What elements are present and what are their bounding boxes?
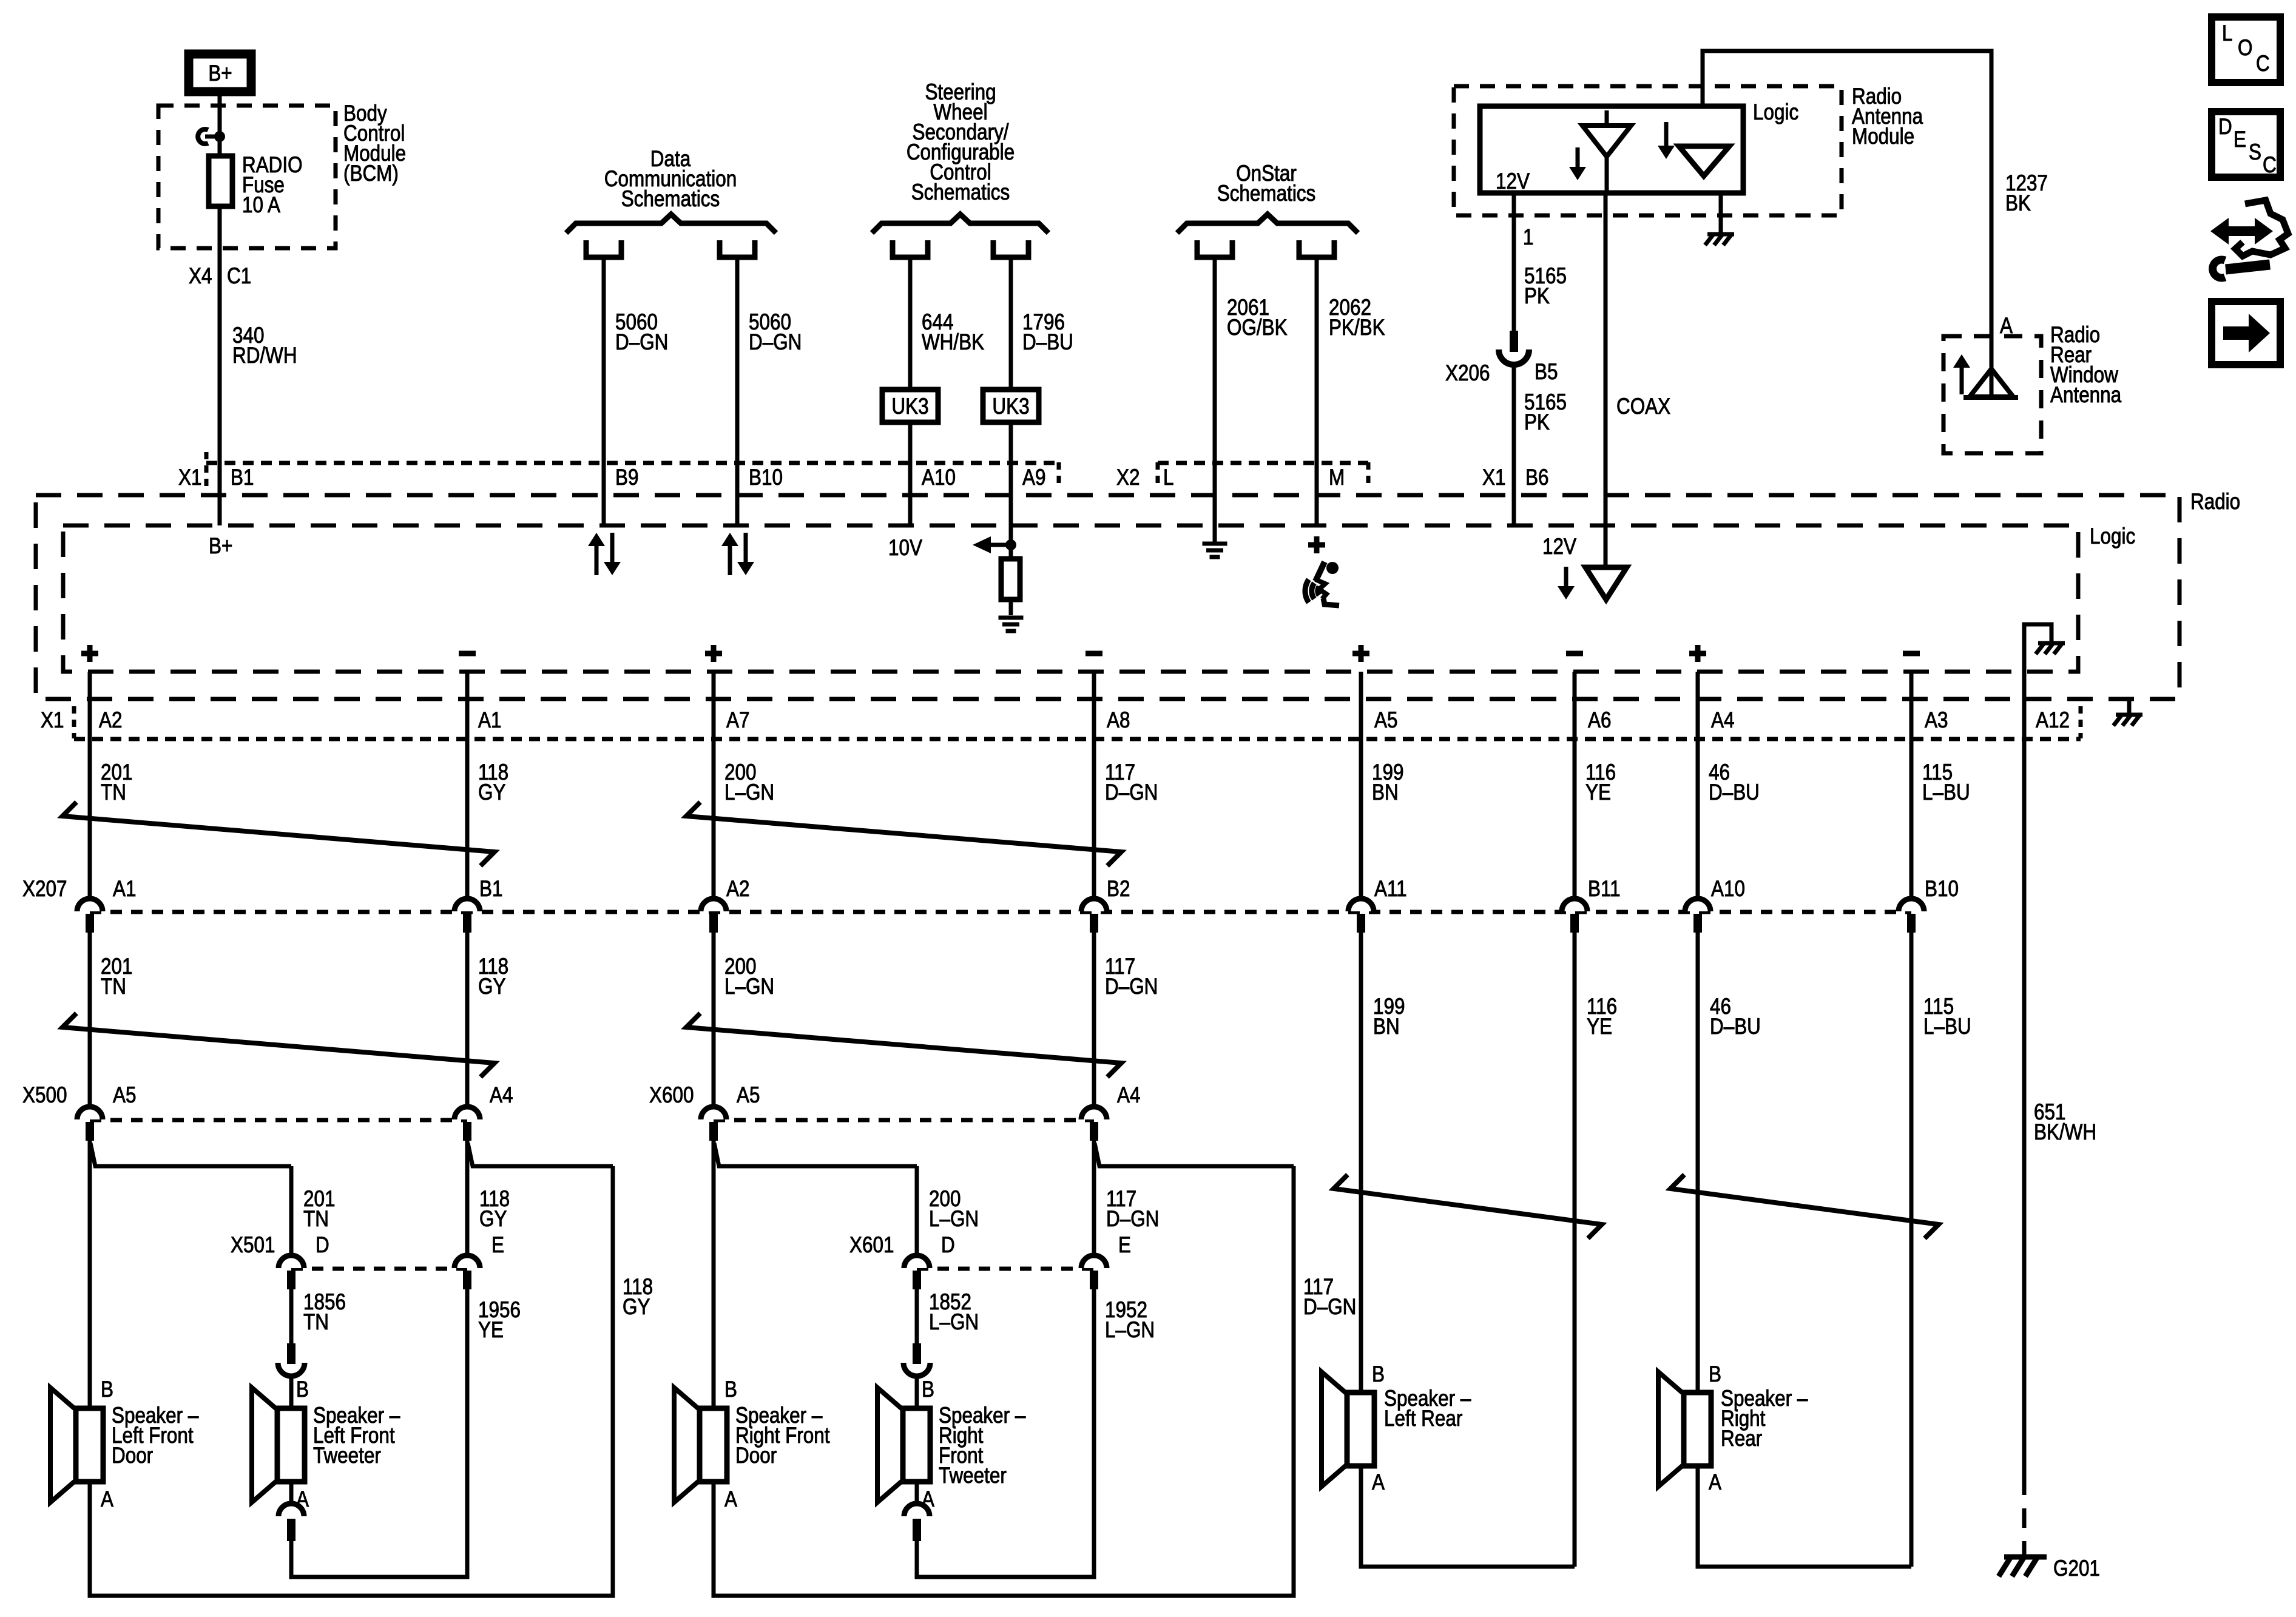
B+ power symbol	[189, 54, 251, 92]
speaker Right Front Tweeter	[877, 1388, 904, 1502]
svg-text:E: E	[491, 1233, 504, 1258]
wire 199 BN X207 to rear speaker	[1359, 933, 1363, 1393]
svg-text:12V: 12V	[1496, 169, 1530, 194]
Body Control Module dashed box	[158, 106, 336, 248]
option box UK3 (A10)	[882, 390, 938, 422]
wire 118 GY X207 to X500	[465, 933, 470, 1106]
svg-text:B6: B6	[1525, 465, 1548, 490]
connector to data schematic B10	[720, 240, 755, 257]
svg-text:118GY: 118GY	[478, 760, 508, 805]
connector to data schematic B9	[586, 240, 621, 257]
wire 115 L–BU radio to X207	[1909, 672, 1914, 897]
OnStar L ground stub	[1213, 525, 1217, 542]
coax wire antenna to radio	[1604, 193, 1608, 570]
radio antenna input triangle	[1585, 567, 1627, 599]
svg-text:A1: A1	[478, 708, 501, 733]
svg-text:D: D	[316, 1233, 329, 1258]
svg-text:X600: X600	[649, 1083, 694, 1108]
wire 5060 B9	[602, 257, 606, 525]
brace steering wheel controls	[872, 214, 1048, 233]
connector row X1 top dotted line	[206, 461, 1059, 465]
svg-text:B: B	[1709, 1362, 1721, 1387]
legend right arrow box	[2212, 302, 2280, 365]
ground antenna triangle in module	[1679, 146, 1729, 176]
svg-text:12V: 12V	[1542, 535, 1576, 559]
svg-text:118GY: 118GY	[479, 1187, 510, 1232]
twisted pair crossover A1/B1 lower	[62, 1013, 495, 1077]
branch wire from x=770 to x=1010	[468, 1143, 613, 1166]
svg-text:X206: X206	[1445, 361, 1490, 386]
svg-text:X1: X1	[1482, 465, 1505, 490]
twisted pair crossover A2/A1 upper	[62, 802, 495, 866]
junction dot at fuse	[214, 131, 225, 142]
svg-text:1952L–GN: 1952L–GN	[1105, 1298, 1155, 1343]
legend LOC box	[2212, 17, 2280, 83]
svg-text:A9: A9	[1022, 465, 1045, 490]
speaker Right Front Door	[674, 1388, 701, 1502]
svg-text:A4: A4	[1117, 1083, 1140, 1108]
svg-text:X1: X1	[41, 708, 64, 733]
svg-text:B: B	[724, 1377, 737, 1402]
svg-text:A2: A2	[726, 877, 749, 902]
svg-text:A: A	[1372, 1470, 1385, 1495]
svg-text:D: D	[2218, 115, 2232, 140]
svg-text:E: E	[1118, 1233, 1131, 1258]
twisted pair crossover A10/B10	[1670, 1175, 1939, 1238]
wire 1796 D-BU	[1009, 257, 1013, 559]
wire 200 L-GN X600-A5 to RF door speaker	[712, 1141, 716, 1408]
wire 116 YE X207 to rear speaker	[1573, 933, 1577, 1567]
brace data communication	[566, 214, 776, 233]
polarity plus at x=2798	[1689, 651, 1706, 657]
polarity plus at x=1176	[705, 651, 722, 657]
polarity plus at x=2243	[1352, 651, 1369, 657]
svg-text:UK3: UK3	[992, 394, 1029, 419]
connector to OnStar schematic L	[1197, 240, 1232, 257]
svg-text:1: 1	[1523, 225, 1533, 250]
branch wire from x=1176 to x=1511	[714, 1143, 917, 1166]
connector X206 pin bar	[1510, 331, 1518, 352]
svg-text:B9: B9	[615, 465, 638, 490]
fuse F RADIO 10A body	[209, 156, 232, 206]
wire 201 TN X500-A5 to LF door speaker	[88, 1141, 92, 1408]
svg-text:A10: A10	[1711, 877, 1745, 902]
connector X500/X600 A4	[454, 1107, 480, 1119]
svg-text:118GY: 118GY	[478, 954, 508, 999]
rear window antenna symbol	[1990, 369, 1994, 396]
svg-text:B: B	[296, 1377, 309, 1402]
svg-text:A: A	[1709, 1470, 1721, 1495]
svg-text:X2: X2	[1116, 465, 1140, 490]
Radio outer dashed box	[36, 495, 2180, 699]
svg-text:O: O	[2238, 36, 2252, 61]
wire 651 BK/WH to G201	[2022, 739, 2027, 1476]
A12 internal ground wire	[2024, 624, 2051, 739]
legend double arrow with hand icon	[2210, 218, 2273, 245]
wire 117 D-GN X600-A4 to X601-E	[1092, 1141, 1096, 1255]
svg-text:B10: B10	[1925, 877, 1959, 902]
svg-text:Logic: Logic	[2090, 524, 2135, 549]
svg-text:A8: A8	[1107, 708, 1130, 733]
svg-text:A: A	[296, 1487, 309, 1512]
connector X501/X601 D	[279, 1255, 304, 1268]
tweeter A inline connector	[279, 1504, 304, 1516]
divider X1 bottom-left	[72, 706, 76, 738]
svg-text:A5: A5	[113, 1083, 136, 1108]
svg-text:A2: A2	[99, 708, 122, 733]
connector X501/X601 E	[1081, 1255, 1107, 1268]
wire left rear speaker loop	[1361, 1466, 1575, 1567]
legend DESC box	[2212, 112, 2280, 177]
wire right rear speaker loop	[1698, 1466, 1911, 1567]
wire 199 BN radio to X207	[1359, 672, 1363, 897]
connector row X501 dashed line	[291, 1267, 467, 1271]
svg-text:L: L	[2222, 21, 2232, 46]
connector X500/X600 A4	[1081, 1107, 1107, 1119]
antenna module inner logic box	[1480, 106, 1743, 193]
legend wrench icon	[2226, 265, 2270, 269]
wire B+ to fuse	[218, 96, 222, 159]
svg-text:S: S	[2249, 140, 2261, 165]
svg-text:A: A	[922, 1487, 934, 1512]
wire 117 D–GN radio to X207	[1092, 672, 1096, 897]
wire 12V antenna feed 5165 PK upper	[1512, 193, 1516, 333]
connector X207 A11	[1348, 899, 1374, 911]
brace OnStar	[1177, 214, 1358, 233]
svg-text:10V: 10V	[888, 536, 922, 561]
polarity minus at x=3150	[1903, 651, 1920, 657]
OnStar L ground	[1203, 542, 1227, 546]
svg-text:Radio: Radio	[2190, 490, 2240, 515]
wire 201 TN branch down to X501-D	[289, 1166, 294, 1255]
wire 200 L-GN branch down to X601-D	[915, 1166, 919, 1255]
svg-text:G201: G201	[2053, 1556, 2100, 1581]
svg-text:A4: A4	[490, 1083, 513, 1108]
up/down arrows B9	[595, 544, 599, 575]
svg-text:1852L–GN: 1852L–GN	[929, 1290, 979, 1335]
wire 5165 PK lower	[1512, 364, 1516, 525]
svg-text:A4: A4	[1711, 708, 1734, 733]
svg-text:C: C	[2263, 153, 2277, 178]
polarity plus at x=148	[81, 651, 98, 657]
antenna mast symbol in module	[1605, 110, 1609, 193]
svg-text:Speaker –Left Rear: Speaker –Left Rear	[1384, 1386, 1471, 1431]
svg-text:A3: A3	[1925, 708, 1948, 733]
connector X207 A10	[1685, 899, 1710, 911]
radio case chassis ground	[2116, 713, 2142, 717]
svg-text:C1: C1	[227, 264, 251, 289]
speaker Left Rear	[1322, 1372, 1348, 1487]
divider X2 left	[1156, 462, 1160, 489]
wire 644 WH/BK	[908, 257, 913, 525]
divider right of M	[1366, 462, 1371, 489]
svg-text:A1: A1	[113, 877, 136, 902]
plus sign OnStar M	[1308, 542, 1325, 548]
twisted pair crossover A11/B11	[1334, 1175, 1602, 1238]
svg-text:A7: A7	[726, 708, 749, 733]
wire 1952 L-GN X601-E loop to RF tweeter A	[917, 1289, 1094, 1577]
wire 46 D–BU X207 to rear speaker	[1696, 933, 1700, 1393]
svg-text:A: A	[101, 1487, 113, 1512]
connector X207 B2	[1081, 899, 1107, 911]
wire 118 GY loop down	[90, 1166, 613, 1596]
wire 118 GY radio to X207	[465, 672, 470, 897]
svg-text:118GY: 118GY	[623, 1275, 653, 1320]
svg-text:A12: A12	[2036, 708, 2070, 733]
connector to steering schematic A9	[993, 240, 1028, 257]
svg-text:B11: B11	[1588, 877, 1621, 902]
svg-text:B+: B+	[208, 61, 232, 86]
svg-text:M: M	[1329, 465, 1345, 490]
branch wire from x=148 to x=480	[90, 1143, 291, 1166]
svg-text:X501: X501	[231, 1233, 275, 1258]
svg-text:E: E	[2234, 127, 2246, 152]
twisted pair crossover A2/B2 lower	[686, 1013, 1121, 1077]
A9 junction dot	[1005, 539, 1016, 550]
svg-text:COAX: COAX	[1616, 394, 1670, 419]
connector X207 A1	[77, 899, 103, 911]
polarity minus at x=2595	[1566, 651, 1583, 657]
svg-text:X4: X4	[189, 264, 212, 289]
radio case ground stub	[2127, 699, 2132, 714]
svg-text:A11: A11	[1374, 877, 1407, 902]
speaker Left Front Door	[50, 1388, 77, 1502]
wire 117 D-GN loop down	[714, 1166, 1294, 1596]
connector row X1 bottom dotted line	[74, 737, 2081, 741]
svg-text:L: L	[1163, 465, 1173, 490]
ground G201	[2004, 1555, 2047, 1560]
wire 1856 TN X501-D to tweeter	[289, 1289, 294, 1346]
wire 5060 B10	[735, 257, 740, 525]
svg-text:UK3: UK3	[891, 394, 928, 419]
svg-text:B1: B1	[231, 465, 254, 490]
svg-text:X500: X500	[22, 1083, 67, 1108]
fuse clip curl	[198, 129, 208, 144]
down arrow by antenna mast	[1576, 147, 1580, 169]
svg-text:X207: X207	[22, 877, 67, 902]
A9 resistor ground	[999, 616, 1024, 620]
svg-text:B2: B2	[1107, 877, 1130, 902]
connector row X207 dashed line	[90, 910, 1911, 914]
wire 201 TN radio to X207	[88, 672, 92, 897]
polarity minus at x=1803	[1086, 651, 1102, 657]
divider A12 right	[2079, 706, 2083, 738]
connector X207 B11	[1562, 899, 1587, 911]
connector X500/X600 A5	[77, 1107, 103, 1119]
wire 115 L–BU X207 to rear speaker	[1909, 933, 1914, 1567]
connector X207 B1	[454, 899, 480, 911]
Radio Logic inner dashed box	[63, 525, 2078, 672]
down arrow by ground antenna	[1664, 122, 1669, 148]
polarity minus at x=770	[459, 651, 476, 657]
svg-text:A5: A5	[1374, 708, 1397, 733]
connector X500/X600 A5	[701, 1107, 726, 1119]
svg-text:B: B	[101, 1377, 113, 1402]
wire antenna module to rear window antenna 1237 BK	[1703, 51, 1991, 369]
Radio Rear Window Antenna dashed box	[1943, 336, 2041, 453]
antenna module case ground stub	[1719, 193, 1723, 233]
speaker Left Front Tweeter	[252, 1388, 279, 1502]
divider X1 left	[204, 452, 209, 489]
wire 2062 PK/BK	[1315, 257, 1319, 525]
antenna module chassis ground	[1707, 232, 1734, 237]
svg-text:B: B	[922, 1377, 934, 1402]
up/down arrows B10	[728, 544, 732, 575]
wire 46 D–BU radio to X207	[1696, 672, 1700, 897]
svg-text:D: D	[941, 1233, 955, 1258]
wire 116 YE radio to X207	[1573, 672, 1577, 897]
svg-text:B1: B1	[479, 877, 502, 902]
A9 pulldown resistor	[1001, 559, 1020, 599]
wire 1852 L-GN X601-D to RF tweeter	[915, 1289, 919, 1346]
tweeter B inline connector	[278, 1363, 305, 1376]
branch wire from x=1803 to x=2132	[1095, 1143, 1294, 1166]
wire 201 TN X207 to X500	[88, 933, 92, 1106]
wire 200 L–GN X207 to X500	[712, 933, 716, 1106]
A12 internal chassis ground	[2038, 641, 2065, 646]
connector X501/X601 E	[454, 1255, 480, 1268]
connector to OnStar schematic M	[1299, 240, 1334, 257]
connector X207 B10	[1899, 899, 1924, 911]
Radio Antenna Module dashed box	[1454, 86, 1842, 215]
wire 2061 OG/BK	[1213, 257, 1217, 525]
svg-text:A: A	[2000, 314, 2013, 339]
twisted pair crossover A7/A8 upper	[686, 802, 1121, 866]
svg-text:A: A	[724, 1487, 737, 1512]
svg-text:A6: A6	[1588, 708, 1611, 733]
wire 117 D–GN X207 to X500	[1092, 933, 1096, 1106]
svg-text:X1: X1	[178, 465, 201, 490]
svg-text:B10: B10	[749, 465, 783, 490]
connector X206 socket arc	[1499, 349, 1529, 365]
wire 1956 YE X501-E loop to tweeter A	[291, 1289, 467, 1577]
up arrow in rear window antenna	[1960, 365, 1964, 394]
svg-text:X601: X601	[849, 1233, 894, 1258]
RF tweeter B inline connector	[903, 1363, 930, 1376]
A9 termination arrow left	[973, 536, 991, 553]
connector row X500 dashed line	[90, 1118, 467, 1122]
connector to steering schematic A10	[893, 240, 928, 257]
radio antenna input arrow	[1564, 567, 1568, 589]
wire 118 GY X500-A4 to X501-E	[465, 1141, 470, 1255]
svg-text:B: B	[1372, 1362, 1385, 1387]
divider right of A9	[1057, 462, 1061, 489]
svg-text:B5: B5	[1535, 360, 1558, 385]
OnStar microphone icon	[1326, 562, 1339, 574]
connector X501/X601 D	[904, 1255, 930, 1268]
svg-text:A10: A10	[922, 465, 956, 490]
svg-text:B+: B+	[209, 534, 232, 559]
speaker Right Rear	[1658, 1372, 1685, 1487]
svg-text:C: C	[2256, 52, 2270, 76]
wire 200 L–GN radio to X207	[712, 672, 716, 897]
svg-text:A5: A5	[737, 1083, 760, 1108]
RF tweeter A inline connector	[904, 1504, 930, 1516]
connector X207 A2	[701, 899, 726, 911]
svg-text:Logic: Logic	[1753, 100, 1798, 125]
connector row X600 dashed line	[714, 1118, 1094, 1122]
connector row X601 dashed line	[917, 1267, 1094, 1271]
wire fuse to radio B1	[218, 206, 222, 525]
option box UK3 (A9)	[983, 390, 1039, 422]
